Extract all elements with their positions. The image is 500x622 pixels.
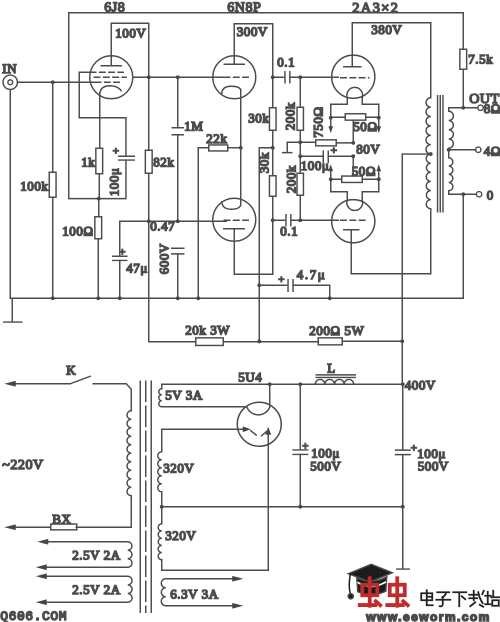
transformer OPT core <box>438 96 443 212</box>
wire 20k to 200ohm <box>223 341 318 343</box>
svg-text:8Ω: 8Ω <box>484 101 500 116</box>
resistor 30k lower <box>269 176 276 197</box>
tube 6J8 grid3 dashes <box>95 81 121 83</box>
node 50b right <box>377 177 381 181</box>
label BX <box>52 511 71 526</box>
node 200k mid1 <box>298 140 302 144</box>
label 30k upper <box>248 110 269 125</box>
svg-text:+: + <box>331 145 338 157</box>
fuse BX <box>4 524 77 530</box>
label 380V <box>371 22 402 37</box>
node 400V <box>401 382 405 386</box>
wire 100ohm leads <box>97 199 100 299</box>
svg-text:100Ω: 100Ω <box>62 223 93 238</box>
svg-text:0: 0 <box>487 187 494 202</box>
capacitor 0.1a plates <box>285 72 290 83</box>
wire 100k bottom <box>52 197 54 298</box>
wire 22k to ground <box>198 148 209 299</box>
wire 8ohm tap <box>449 107 478 109</box>
node 82k-row <box>147 219 151 223</box>
capacitor 100u cathode plates <box>119 156 135 160</box>
label 22k <box>206 131 227 146</box>
wire 50ohm upper leads <box>331 116 379 118</box>
label 1M <box>184 118 203 133</box>
wire 100u bias leads <box>300 155 353 157</box>
label 50ohm upper <box>353 119 377 134</box>
svg-text:www.eeworm.com: www.eeworm.com <box>365 610 491 622</box>
node 4.7u left <box>257 283 261 287</box>
label 2.5V-a <box>72 547 120 562</box>
wire 100k top <box>52 82 54 172</box>
wire IN to grid <box>17 81 94 83</box>
watermark eeworm logo <box>348 564 408 606</box>
svg-text:320V: 320V <box>163 460 194 475</box>
wire 47u leads <box>119 221 121 298</box>
watermark chinese text <box>421 590 499 607</box>
label 20k 3W <box>185 322 230 337</box>
terminal 8ohm <box>478 105 483 110</box>
wire OPT CT to B+ <box>402 153 431 155</box>
node 0.1b-200k <box>298 218 302 222</box>
transformer OPT primary <box>426 98 431 209</box>
node 30k-0.1 junction <box>271 218 275 222</box>
svg-text:6J8: 6J8 <box>104 0 125 15</box>
resistor 22k <box>209 145 228 151</box>
wire 2A3-a filament neck <box>331 98 379 118</box>
terminal 0 <box>476 192 481 197</box>
svg-text:80V: 80V <box>356 141 380 156</box>
label 100u-b plus <box>411 442 418 454</box>
svg-text:+: + <box>302 440 309 452</box>
wire 320V-a to plate <box>162 428 246 430</box>
resistor 200ohm 5W <box>318 338 342 345</box>
node rail 22k <box>196 296 200 300</box>
svg-text:Q606.COM: Q606.COM <box>0 609 67 622</box>
wire 0.1b row <box>273 219 339 221</box>
wire 380V routing <box>352 23 431 98</box>
wire 1M leads <box>177 77 179 221</box>
svg-text:500V: 500V <box>310 458 341 473</box>
wire 2.5V-b bottom <box>36 599 128 605</box>
tube 5U4 envelope <box>237 402 281 446</box>
tube 6N8P-a envelope <box>213 56 256 99</box>
svg-text:600V: 600V <box>156 243 171 274</box>
label 47u <box>126 260 148 275</box>
wire 5U4 plate right lead <box>267 431 269 570</box>
svg-text:750Ω: 750Ω <box>310 106 325 137</box>
resistor 200k-a <box>297 107 303 130</box>
label 100u plus <box>113 145 120 157</box>
wire 50b center tap <box>352 156 354 176</box>
transformer PT core <box>140 381 151 612</box>
wire 100u bottom <box>99 160 126 199</box>
wire 4.7u left <box>259 284 286 286</box>
label 100u bias <box>301 158 330 173</box>
label 82k <box>153 154 174 169</box>
wire 22k right <box>228 147 241 149</box>
resistor 20k 3W <box>196 338 224 346</box>
tube 6J8 cathode <box>100 86 122 95</box>
resistor 750 <box>316 140 337 146</box>
wire 20k row left <box>149 341 196 343</box>
tube 6N8P-b envelope <box>213 198 256 241</box>
tube 6N8P-a cathode <box>222 86 241 93</box>
tube 2A3-b envelope <box>332 200 375 243</box>
node rail 47u <box>118 296 122 300</box>
label 200k-b vertical <box>283 165 298 193</box>
tube 6N8P-b grid dashes <box>224 219 248 221</box>
wire 30k mid to fb line <box>259 148 273 341</box>
node HV center tap <box>160 505 164 509</box>
node 1M-row <box>176 219 180 223</box>
label 47u plus <box>119 246 126 258</box>
wire 0 tap <box>449 193 477 195</box>
ground symbol main <box>4 298 22 322</box>
wire 2.5V-a bottom <box>36 564 128 570</box>
label OUT <box>469 92 499 107</box>
arrow 50a left <box>328 118 333 134</box>
tube 6J8 envelope <box>90 56 133 99</box>
label 50ohm lower <box>352 163 376 178</box>
label 500V-a <box>310 458 341 473</box>
resistor 50ohm lower <box>342 176 363 182</box>
wire IN ground lead <box>9 89 11 298</box>
wire 2.5V-b top <box>36 573 128 579</box>
node rail 4.7u <box>328 296 332 300</box>
node 750-tap <box>351 141 355 145</box>
wire 200k-a bottom <box>299 130 301 156</box>
tube 2A3-b filament <box>347 200 363 210</box>
wire 6.3V bottom <box>166 603 244 609</box>
svg-text:K: K <box>66 362 76 377</box>
transformer 5V <box>159 389 162 407</box>
transformer 2.5V-a <box>128 542 132 568</box>
node dropper mid <box>257 340 261 344</box>
arrow 50a right <box>376 118 381 134</box>
wire 100V routing <box>111 23 149 77</box>
wire 750 leads <box>300 141 353 144</box>
wire cap1 bottom <box>299 454 301 506</box>
label 100V <box>115 25 146 40</box>
wire 6J8 plate row <box>133 76 224 78</box>
wire 5V top <box>162 384 403 389</box>
wire 400V line <box>401 154 404 450</box>
wire 50a center tap <box>352 121 354 143</box>
label 100u vertical <box>106 168 121 197</box>
wire 2A3-b filament neck <box>331 179 379 200</box>
svg-text:200Ω 5W: 200Ω 5W <box>309 323 364 338</box>
terminal IN <box>3 75 17 89</box>
wire 6N8P-a cathode lead <box>240 89 242 148</box>
resistor 30k upper <box>269 108 276 131</box>
resistor 100k <box>49 172 56 197</box>
tube 5U4 plate right <box>262 427 272 436</box>
label 30k lower vertical <box>256 152 271 173</box>
transformer 6.3V <box>161 579 166 606</box>
node 0.1a-200k <box>298 75 302 79</box>
arrow 50b left <box>328 164 333 179</box>
label 0 <box>487 187 494 202</box>
wire feedback top rail <box>69 13 464 199</box>
capacitor 0.1b plates <box>286 215 291 226</box>
capacitor 0.47 plates <box>172 248 184 254</box>
tube 6N8P-a grid dashes <box>224 76 248 78</box>
tube 2A3-a plate <box>344 23 361 67</box>
tube 6N8P-a plate <box>224 24 244 65</box>
wire 6.3V top <box>166 576 244 582</box>
tube 5U4 filament <box>247 407 270 415</box>
watermark Q606.COM <box>0 609 67 622</box>
svg-text:0.1: 0.1 <box>280 223 298 238</box>
switch K <box>4 376 90 386</box>
tube 2A3-a filament <box>347 87 363 97</box>
wire 6J8 cathode lead <box>99 93 101 149</box>
svg-text:5V 3A: 5V 3A <box>165 387 203 402</box>
svg-text:0.1: 0.1 <box>277 54 295 69</box>
node choke in <box>298 382 302 386</box>
svg-text:320V: 320V <box>165 528 196 543</box>
wire 5V bottom <box>162 406 247 408</box>
capacitor 100u-b plates <box>396 450 411 455</box>
node 0 tap <box>461 192 465 196</box>
node plate-1M <box>176 75 180 79</box>
node cap1 ground <box>298 505 302 509</box>
wire 30k junction <box>272 130 274 176</box>
svg-text:100k: 100k <box>20 178 48 193</box>
capacitor 100u bias plates <box>323 151 328 162</box>
label 400V <box>405 377 436 392</box>
svg-text:100μ: 100μ <box>106 168 121 197</box>
svg-text:1M: 1M <box>184 118 203 133</box>
resistor 50ohm upper <box>345 114 366 120</box>
wire 82k top <box>148 77 150 150</box>
capacitor 47u plates <box>113 256 127 260</box>
wire 50ohm lower leads <box>331 178 379 180</box>
tube 6J8 plate <box>101 23 121 66</box>
node plate-82k <box>147 75 151 79</box>
label 0.47 <box>150 218 175 233</box>
resistor 100ohm <box>95 217 102 239</box>
svg-text:1k: 1k <box>81 154 95 169</box>
wire node row 221 <box>120 220 227 222</box>
tube 2A3-b grid dashes <box>341 219 368 221</box>
node OPT center tap <box>429 152 433 156</box>
node rail 100ohm <box>96 296 100 300</box>
inductor L choke <box>315 379 354 384</box>
transformer PT primary <box>127 411 131 496</box>
node 300V-0.1 junction <box>271 75 275 79</box>
capacitor 1M plates <box>172 128 183 135</box>
label 100u bias plus <box>331 145 338 157</box>
label 100ohm <box>62 223 93 238</box>
svg-text:2.5V 2A: 2.5V 2A <box>72 547 120 562</box>
wire HV CT rail <box>162 492 403 524</box>
wire 4.7u right <box>293 285 330 298</box>
svg-text:6N8P: 6N8P <box>227 0 261 15</box>
label 100u-a plus <box>302 440 309 452</box>
node rail 100k <box>51 296 55 300</box>
node 200k mid2 <box>298 154 302 158</box>
svg-text:300V: 300V <box>237 24 268 39</box>
label 0.1a <box>277 54 295 69</box>
wire 300V routing <box>234 24 273 108</box>
svg-text:2.5V 2A: 2.5V 2A <box>72 582 120 597</box>
node 50b left <box>329 177 333 181</box>
node 50a left <box>329 116 333 120</box>
label 2.5V-b <box>72 582 120 597</box>
label 100k <box>20 178 48 193</box>
arrow 50b right <box>376 164 381 179</box>
label 200k-a vertical <box>282 102 297 130</box>
svg-text:L: L <box>327 360 336 375</box>
svg-text:4.7μ: 4.7μ <box>297 267 327 282</box>
svg-text:6.3V 3A: 6.3V 3A <box>170 586 218 601</box>
wire 200k-a top <box>299 77 301 107</box>
svg-text:47μ: 47μ <box>126 260 148 275</box>
wire 82k bottom <box>148 173 150 342</box>
label 5U4 <box>238 369 262 384</box>
label 500V-b <box>418 458 449 473</box>
wire 30k lower bottom <box>272 196 274 220</box>
svg-text:+: + <box>278 274 285 286</box>
tube 6N8P-b plate <box>224 220 273 274</box>
label 320V-a <box>163 460 194 475</box>
transformer 320V-a <box>158 429 162 492</box>
transformer 2.5V-b <box>128 576 132 602</box>
wire 4ohm tap <box>449 149 476 151</box>
wire cap2 bottom <box>402 455 404 507</box>
svg-text:22k: 22k <box>206 131 227 146</box>
tube label 6J8 <box>104 0 125 15</box>
svg-text:30k: 30k <box>248 110 269 125</box>
wire ground rail <box>10 297 463 299</box>
node 22k junction <box>239 146 243 150</box>
svg-text:20k 3W: 20k 3W <box>185 322 230 337</box>
label 6.3V 3A <box>170 586 218 601</box>
terminal 4ohm <box>476 147 481 152</box>
tube 6J8 grid1 dashes <box>90 71 123 73</box>
label IN <box>2 61 17 76</box>
svg-text:7.5k: 7.5k <box>468 51 493 66</box>
tube 5U4 plate left <box>243 426 257 435</box>
label K <box>66 362 76 377</box>
resistor 82k <box>145 150 152 173</box>
wire 7.5k bottom <box>462 69 464 108</box>
wire cap1 top <box>299 384 301 450</box>
label 4ohm <box>484 143 500 158</box>
wire 1k bottom <box>98 174 100 199</box>
node 6J8 cathode net <box>97 197 101 201</box>
ground hook 200k <box>283 142 301 152</box>
resistor 7.5k <box>460 49 467 69</box>
label 5V 3A <box>165 387 203 402</box>
label 7.5k <box>468 51 493 66</box>
wire primary bottom <box>76 496 131 528</box>
tube label 6N8P <box>227 0 261 15</box>
wire 0.47 bottom <box>177 254 179 298</box>
label 100u-b <box>417 446 446 461</box>
label 8ohm <box>484 101 500 116</box>
wire 2.5V-a top <box>37 539 128 545</box>
svg-text:82k: 82k <box>153 154 174 169</box>
tube 2A3-a envelope <box>332 55 375 98</box>
node rail 0.47 <box>176 296 180 300</box>
wire 6J8 grid1 return <box>79 72 126 156</box>
watermark url <box>365 610 491 622</box>
svg-text:BX: BX <box>52 511 71 526</box>
transformer OPT secondary <box>449 108 454 195</box>
label 320V-b <box>165 528 196 543</box>
resistor 200k-b <box>297 173 303 195</box>
wire 5U4 filament lead <box>269 384 271 407</box>
capacitor 100u-a plates <box>293 450 308 455</box>
svg-text:30k: 30k <box>256 152 271 173</box>
wire 0 to ground rail <box>462 194 464 298</box>
label L <box>327 360 336 375</box>
wire 6N8P-b cathode lead <box>240 148 242 205</box>
svg-text:~220V: ~220V <box>2 458 43 473</box>
svg-text:100V: 100V <box>115 25 146 40</box>
svg-text:200k: 200k <box>283 165 298 193</box>
wire 200ohm right <box>342 340 402 342</box>
svg-text:100μ: 100μ <box>301 158 330 173</box>
tube 6J8 grid2 dashes <box>94 76 126 78</box>
svg-text:+: + <box>113 145 120 157</box>
tube 6N8P-b cathode <box>222 202 241 210</box>
label 4.7u <box>297 267 327 282</box>
node input junction <box>51 80 55 84</box>
svg-text:2A3×2: 2A3×2 <box>352 0 399 16</box>
node PS ground <box>401 505 405 509</box>
node 80V <box>351 154 355 158</box>
label 4.7u plus <box>278 274 285 286</box>
label 200ohm 5W <box>309 323 364 338</box>
node 30k mid <box>271 146 275 150</box>
node dropper right <box>400 339 404 343</box>
inductor L core <box>316 375 355 378</box>
label 0.1b <box>280 223 298 238</box>
wire 0.1a row <box>273 76 339 78</box>
svg-text:50Ω: 50Ω <box>353 119 377 134</box>
svg-text:50Ω: 50Ω <box>352 163 376 178</box>
wire 320V-b bottom <box>162 560 269 571</box>
ground symbol PS <box>397 507 410 569</box>
label 220V <box>2 458 43 473</box>
tube 2A3-a grid dashes <box>341 77 369 79</box>
capacitor 4.7u plates <box>288 280 293 292</box>
node 8ohm <box>461 106 465 110</box>
transformer 320V-b <box>158 524 162 560</box>
wire 200k-b leads <box>299 156 301 220</box>
node 50a right <box>377 116 381 120</box>
svg-text:0.47: 0.47 <box>150 218 175 233</box>
svg-text:IN: IN <box>2 61 17 76</box>
resistor 1k <box>96 148 103 174</box>
svg-text:500V: 500V <box>418 458 449 473</box>
label 80V <box>356 141 380 156</box>
svg-text:380V: 380V <box>371 22 402 37</box>
tube label 2A3x2 <box>352 0 399 16</box>
svg-text:200k: 200k <box>282 102 297 130</box>
label 1k <box>81 154 95 169</box>
wire K to primary <box>93 384 131 411</box>
label 100u-a <box>311 445 340 460</box>
svg-text:5U4: 5U4 <box>238 369 262 384</box>
node 5U4 filament <box>268 382 272 386</box>
label 750 vertical <box>310 106 325 137</box>
node 4ohm tap <box>447 148 451 152</box>
svg-text:4Ω: 4Ω <box>484 143 500 158</box>
